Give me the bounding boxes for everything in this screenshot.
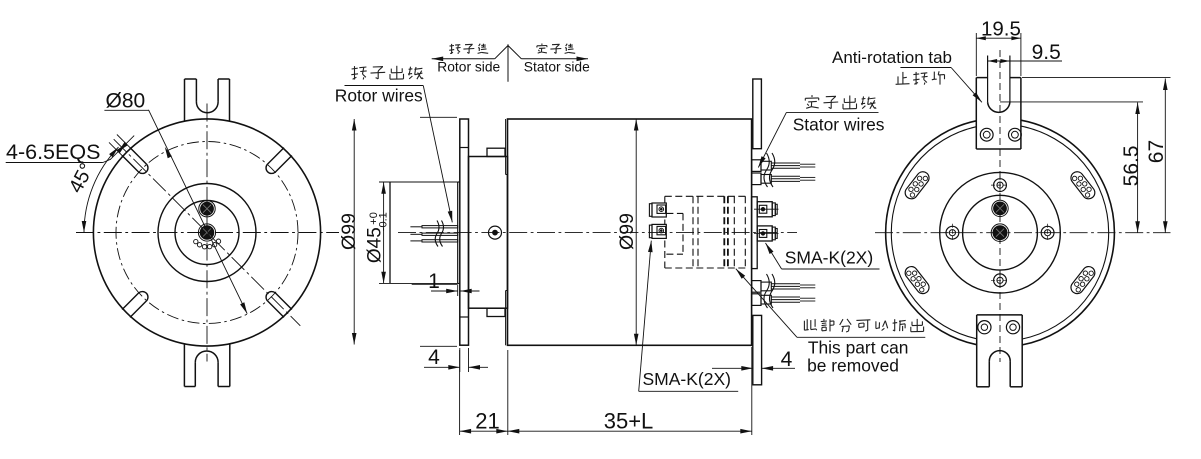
svg-text:56.5: 56.5 [1120, 145, 1143, 186]
middle view: dia-45 dimension inner line [389, 182, 391, 283]
left view: 4-6.5EQS slot dimension [6, 135, 138, 163]
left view: horizontal centerline [76, 232, 339, 234]
left view: middle circle [158, 184, 256, 282]
label: Stator wires [793, 115, 885, 135]
label: dia-99 (flange) [338, 213, 360, 250]
left view: four 6.5 mounting slots [122, 148, 292, 318]
right view: anti-rotation tab leader [951, 68, 982, 103]
label: rotor side (CJK) [449, 44, 488, 54]
right view: 19.5 dimension [976, 33, 1021, 76]
right view: top anti-rotation tab [976, 56, 1021, 150]
label: Stator side [524, 60, 590, 75]
middle view: SMA-K bottom leader [639, 241, 653, 392]
middle view: stator wires top group [752, 153, 816, 187]
left view: bottom fork tab [184, 344, 229, 387]
left view: dia-80 label [106, 90, 146, 113]
label: dia-99 (body) [616, 213, 638, 250]
label: dia-45 with tolerance [365, 212, 390, 263]
svg-text:Ø99: Ø99 [338, 213, 360, 250]
svg-text:Rotor wires: Rotor wires [335, 86, 423, 106]
svg-text:-0.1: -0.1 [377, 212, 389, 231]
right view: vertical centerline [999, 50, 1001, 362]
svg-text:This part can: This part can [808, 338, 909, 358]
middle view: hub screw [489, 226, 502, 239]
right view: 9.5 dimension [988, 59, 1062, 63]
label: 19.5 [981, 18, 1021, 41]
label: 4 (left) [428, 346, 440, 369]
label: 21 [475, 409, 499, 434]
middle view: removable part (dashed) [665, 196, 746, 268]
svg-text:SMA-K(2X): SMA-K(2X) [643, 369, 731, 389]
left view: 45-deg label [65, 160, 99, 197]
left view: bolt circle (dash-dot) [116, 142, 298, 324]
middle view: 4mm flange thickness dimension [424, 348, 488, 372]
right view: four screws [943, 176, 1056, 289]
middle view: SMA-K connector on removable part (lower) [649, 224, 666, 238]
left view: inner circle [175, 201, 239, 265]
label: 56.5 [1120, 145, 1143, 186]
label: 67 [1145, 140, 1168, 163]
middle view: horizontal centerline [398, 232, 797, 234]
right view: 67 dimension [1022, 78, 1171, 233]
svg-text:4: 4 [781, 348, 793, 371]
label: stator side (CJK) [537, 44, 575, 54]
svg-text:19.5: 19.5 [981, 18, 1021, 41]
right view: middle circle [940, 172, 1061, 293]
label: be removed [807, 356, 899, 376]
middle view: SMA mounting plate [752, 197, 758, 269]
middle view: SMA-K connector on removable part (upper) [649, 203, 666, 217]
label: SMA-K(2X) bottom [639, 369, 739, 391]
label: Rotor side [437, 60, 500, 75]
svg-text:Stator side: Stator side [524, 60, 590, 75]
label: SMA-K(2X) right [782, 248, 880, 270]
label: This part can [808, 338, 909, 358]
left view: top fork tab [185, 79, 230, 122]
left view: vertical centerline [206, 104, 208, 362]
middle view: 4mm tab thickness dimension [712, 366, 795, 371]
svg-text:1: 1 [428, 270, 440, 293]
right view: center contact dot [991, 224, 1009, 242]
svg-text:Stator wires: Stator wires [793, 115, 885, 135]
right view: hole cluster NE [1068, 169, 1097, 201]
left view: 4-6.5EQS label [6, 140, 100, 164]
right view: hole cluster SE [1068, 264, 1097, 296]
svg-text:Anti-rotation tab: Anti-rotation tab [832, 48, 952, 67]
middle view: rotor flange plate [460, 119, 469, 345]
right view: horizontal centerline [875, 232, 1171, 234]
middle view: stator body [506, 119, 752, 345]
middle view: SMA-K connector upper [754, 202, 779, 217]
svg-text:Ø99: Ø99 [616, 213, 638, 250]
label: Rotor wires [335, 86, 424, 106]
left view: 45-deg angular dimension arc [82, 147, 119, 232]
svg-text:9.5: 9.5 [1032, 41, 1061, 64]
label: rotor wires (CJK) [351, 66, 423, 80]
middle view: SMA-K right leader [766, 243, 782, 269]
middle view: stator tab top (side view) [753, 79, 762, 149]
middle view: dia-99 body dimension [634, 119, 639, 345]
right view: bottom anti-rotation tab [977, 315, 1023, 387]
right view: hole cluster SW [903, 264, 932, 296]
middle view: 1mm protrusion dimension [412, 284, 480, 296]
right view: hole cluster NW [903, 169, 932, 201]
left view: outer circle [93, 119, 320, 346]
label: 35+L [604, 409, 654, 434]
right view: 56.5 dimension [1000, 102, 1143, 233]
middle view: rotor wires bundle [410, 221, 457, 247]
right view: outer circles [886, 120, 1115, 345]
svg-text:21: 21 [475, 409, 499, 434]
middle view: dia-45 boss face [458, 182, 460, 284]
left view: dia-80 bolt-circle dimension line [104, 110, 247, 314]
right view: upper contact dot [992, 200, 1008, 216]
svg-text:Rotor side: Rotor side [437, 60, 500, 75]
middle view: stator wires leader [758, 112, 786, 167]
middle view: stator wires bottom group [752, 274, 816, 308]
svg-text:4: 4 [428, 346, 440, 369]
label: anti-rotation tab (CJK) [896, 71, 945, 84]
label: Anti-rotation tab [832, 48, 952, 68]
middle view: rotor/stator side divider [432, 44, 588, 82]
left view: 45-deg slot axis centerline [114, 139, 301, 326]
right view: inner circle [963, 195, 1038, 270]
label: 9.5 [1032, 41, 1061, 64]
label: 1 [428, 270, 440, 293]
middle view: dia-45 boss dimension [379, 182, 458, 283]
svg-text:Ø80: Ø80 [106, 90, 146, 113]
middle view: SMA-K connector lower [754, 226, 779, 241]
middle view: rotor hub [469, 148, 508, 316]
svg-text:Ø45: Ø45 [365, 227, 386, 263]
label: stator wires (CJK) [786, 95, 878, 112]
label: 4 (right) [781, 348, 793, 371]
middle view: dia-99 flange dimension [352, 117, 457, 346]
svg-text:67: 67 [1145, 140, 1168, 163]
svg-text:4-6.5EQS: 4-6.5EQS [6, 140, 100, 164]
svg-text:35+L: 35+L [604, 409, 654, 434]
middle view: stator tab bottom (side view) [753, 315, 762, 384]
left view: center contact dot [198, 224, 215, 241]
left view: arc of small contact holes [194, 239, 221, 249]
label: removable note (CJK) [797, 319, 925, 337]
middle view: 21 and 35+L dimensions [460, 347, 752, 435]
left view: upper contact dot [199, 201, 215, 217]
svg-text:SMA-K(2X): SMA-K(2X) [785, 248, 873, 268]
middle view: rotor wires leader [423, 86, 452, 223]
middle view: removable part leader [736, 269, 797, 338]
svg-text:be removed: be removed [807, 356, 899, 376]
